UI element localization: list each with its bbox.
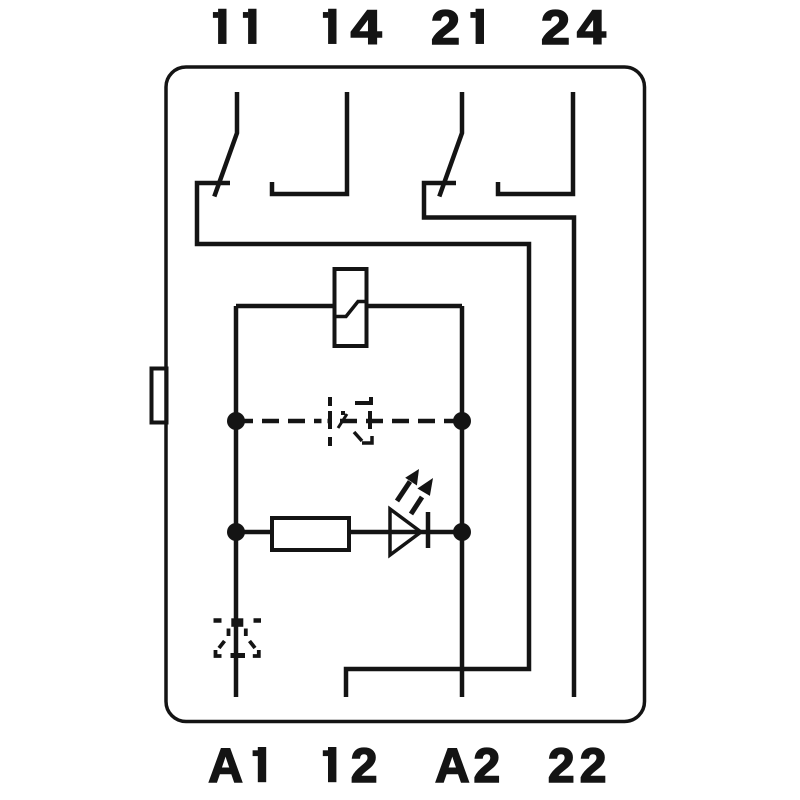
svg-text:A: A: [435, 740, 470, 793]
svg-text:2: 2: [351, 740, 378, 793]
svg-text:4: 4: [351, 2, 382, 55]
svg-text:2: 2: [580, 740, 607, 793]
svg-text:2: 2: [431, 2, 460, 55]
svg-text:4: 4: [577, 2, 606, 55]
svg-text:2: 2: [474, 740, 501, 793]
svg-text:2: 2: [548, 740, 575, 793]
svg-text:2: 2: [541, 2, 570, 55]
svg-text:A: A: [208, 740, 243, 793]
